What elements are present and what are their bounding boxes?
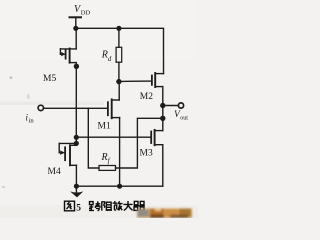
- VDD supply terminal bar: [70, 16, 82, 18]
- input wire: [44, 107, 108, 109]
- wire top VDD rail: [76, 28, 164, 73]
- svg-text:M1: M1: [98, 121, 111, 131]
- char 大: [123, 201, 132, 211]
- char 跨: [89, 201, 101, 210]
- junction dot VDD-Rd: [116, 26, 121, 31]
- wire Rd top: [118, 28, 120, 47]
- transistor M1: [108, 82, 120, 119]
- junction dot M4 drain: [74, 141, 79, 146]
- svg-text:M4: M4: [48, 167, 61, 177]
- wire left column M5 to M4: [75, 63, 77, 146]
- resistor Rd: [116, 47, 122, 62]
- junction dot VDD-M5: [73, 26, 78, 31]
- svg-text:5: 5: [76, 203, 81, 213]
- label Rf: [101, 152, 111, 165]
- junction dot ground rail left: [74, 184, 79, 189]
- svg-text:out: out: [180, 115, 188, 121]
- caption: 图5 跨阻放大器 (drawn strokes): [65, 201, 145, 213]
- wire feedback: output to Rf right: [116, 118, 163, 168]
- junction dot M1 source at rail: [117, 184, 122, 189]
- wire M4 source to ground: [75, 165, 77, 186]
- resistor Rf: [99, 166, 116, 171]
- char 阻: [102, 201, 112, 210]
- bottom-right colored scan noise: [137, 208, 192, 218]
- svg-text:R: R: [101, 152, 108, 163]
- node X junction dot (Rd/M1 drain/M2 gate): [116, 79, 121, 84]
- label V_out: [174, 110, 188, 121]
- output terminal circle: [178, 103, 183, 108]
- svg-text:DD: DD: [81, 9, 91, 16]
- transistor M5 (diode-connected): [60, 28, 76, 62]
- svg-text:d: d: [108, 55, 112, 63]
- junction dot output node: [160, 103, 165, 108]
- wire M2 source down to output node: [162, 87, 164, 131]
- char 器: [134, 201, 145, 210]
- faint bleed-through band: [0, 102, 104, 106]
- label VDD: [74, 4, 90, 16]
- char 放: [113, 201, 123, 210]
- wire to output terminal: [163, 105, 178, 107]
- label Rd: [101, 50, 112, 63]
- transistor M3: [151, 130, 163, 145]
- wire Rd bottom to node X: [118, 62, 120, 81]
- ground symbol: [75, 186, 77, 192]
- wire M1 source to ground rail: [119, 118, 121, 187]
- svg-text:M5: M5: [43, 74, 56, 84]
- paper background: [0, 0, 198, 218]
- svg-text:in: in: [29, 118, 35, 125]
- junction dot M5 source: [74, 64, 79, 69]
- transistor M2: [152, 73, 164, 87]
- junction dot node A: [74, 135, 79, 140]
- wire M2 gate lead: [119, 80, 152, 82]
- transistor M4 (diode-connected): [59, 143, 76, 165]
- label i_in: [26, 113, 35, 125]
- char 图: [65, 201, 75, 211]
- wire VDD terminal to rail: [75, 17, 77, 28]
- svg-text:M3: M3: [140, 149, 153, 159]
- ground rail: [76, 185, 162, 187]
- wire Rf left column: [88, 108, 99, 168]
- junction dot feedback node: [160, 116, 165, 121]
- input terminal circle: [38, 105, 43, 110]
- wire M3 source to ground rail: [162, 145, 164, 187]
- faint scan specks: [2, 77, 30, 189]
- wire node A: bias line to M3 gate: [76, 136, 151, 138]
- svg-text:M2: M2: [140, 92, 153, 102]
